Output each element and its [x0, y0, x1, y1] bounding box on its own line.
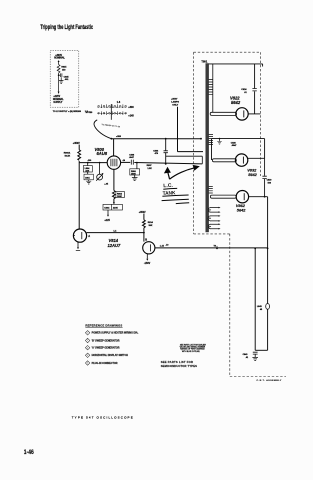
svg-text:500: 500 [268, 183, 272, 185]
svg-text:45: 45 [260, 308, 263, 311]
svg-text:L864: L864 [85, 167, 91, 170]
svg-text:TO LV SUPPLY + (B) WIRING: TO LV SUPPLY + (B) WIRING [53, 111, 82, 113]
svg-text:A: A [88, 234, 90, 238]
svg-text:.001: .001 [64, 79, 69, 81]
svg-text:NOTES: NOTES [86, 112, 93, 114]
svg-text:R845: R845 [61, 66, 67, 69]
svg-text:REFERENCE DRAWINGS: REFERENCE DRAWINGS [85, 324, 122, 328]
svg-text:1-4: 1-4 [113, 229, 117, 232]
svg-text:C806: C806 [153, 151, 159, 153]
svg-text:5: 5 [87, 363, 88, 365]
svg-text:.01: .01 [245, 357, 249, 359]
svg-text:SUPPLY: SUPPLY [53, 102, 62, 104]
svg-text:C830: C830 [267, 180, 273, 182]
svg-text:NOMINAL: NOMINAL [54, 57, 65, 60]
svg-text:C861: C861 [85, 178, 91, 180]
svg-text:-150V: -150V [144, 262, 151, 265]
svg-text:56K: 56K [149, 225, 153, 227]
svg-text:C.R.T. ASSEMBLY: C.R.T. ASSEMBLY [257, 379, 282, 382]
svg-text:R807: R807 [147, 165, 153, 167]
svg-text:6AU8: 6AU8 [97, 151, 108, 156]
svg-text:.0047: .0047 [129, 156, 135, 159]
svg-text:L843: L843 [257, 305, 263, 308]
svg-text:C824: C824 [241, 88, 247, 91]
svg-text:1.5K: 1.5K [147, 168, 152, 170]
svg-text:180K: 180K [131, 173, 136, 175]
svg-text:-14: -14 [122, 159, 126, 162]
svg-text:+225V: +225V [53, 96, 60, 98]
svg-text:PLUG-IN CONNECTOR: PLUG-IN CONNECTOR [92, 362, 118, 365]
svg-text:B: B [145, 237, 147, 241]
svg-text:-100: -100 [87, 160, 91, 162]
svg-text:+300V: +300V [55, 55, 62, 57]
svg-text:HORIZONTAL DISPLAY SWITCH: HORIZONTAL DISPLAY SWITCH [92, 354, 129, 357]
svg-text:TYPE 547 OSCILLOSCOPE: TYPE 547 OSCILLOSCOPE [72, 416, 134, 420]
svg-text:5642: 5642 [231, 100, 241, 105]
svg-text:C843: C843 [243, 353, 249, 356]
svg-text:-10: -10 [166, 245, 170, 247]
svg-text:.0047: .0047 [231, 144, 237, 147]
svg-text:.01: .01 [244, 92, 247, 94]
svg-text:NOMINAL: NOMINAL [53, 98, 64, 101]
svg-text:22K: 22K [85, 170, 89, 172]
svg-text:100K: 100K [117, 196, 122, 198]
svg-text:C804: C804 [104, 207, 110, 210]
svg-text:Tripping the Light Fantastic: Tripping the Light Fantastic [40, 24, 93, 31]
svg-text:12AU7: 12AU7 [108, 243, 121, 248]
svg-text:TO SWEEP CKT 1-30: TO SWEEP CKT 1-30 [101, 124, 120, 128]
svg-text:1: 1 [87, 332, 88, 334]
svg-text:LAMPS: LAMPS [171, 100, 179, 103]
svg-text:WITH BLUE OUTLINE.: WITH BLUE OUTLINE. [182, 351, 201, 353]
svg-text:R860A: R860A [64, 152, 71, 155]
svg-text:+145: +145 [128, 115, 134, 118]
svg-text:1-15: 1-15 [160, 246, 165, 248]
svg-text:2: 2 [87, 340, 88, 342]
svg-text:+350V: +350V [139, 212, 146, 214]
svg-text:+350V: +350V [171, 98, 178, 100]
svg-text:+.05: +.05 [104, 183, 109, 185]
svg-text:3: 3 [87, 347, 88, 349]
svg-text:+350: +350 [116, 136, 122, 138]
svg-text:R814: R814 [148, 221, 154, 224]
svg-text:4: 4 [87, 355, 88, 357]
svg-text:ONLY: ONLY [172, 104, 178, 106]
svg-text:C845: C845 [64, 75, 70, 78]
svg-text:1-46: 1-46 [24, 449, 35, 456]
svg-text:56.5K: 56.5K [65, 156, 71, 158]
svg-text:470: 470 [155, 152, 159, 155]
svg-text:5642: 5642 [237, 207, 246, 212]
svg-text:+350V: +350V [73, 142, 80, 145]
svg-text:5642: 5642 [248, 172, 257, 177]
svg-text:POWER SUPPLY & HEATER WIRING D: POWER SUPPLY & HEATER WIRING DIA. [92, 332, 139, 335]
svg-text:'B' SWEEP GENERATOR: 'B' SWEEP GENERATOR [92, 339, 120, 342]
svg-text:SEE PARTS LIST FOR: SEE PARTS LIST FOR [161, 360, 194, 364]
svg-text:R804: R804 [117, 193, 123, 196]
svg-text:T801: T801 [201, 60, 207, 64]
svg-text:+300: +300 [128, 106, 134, 109]
svg-text:1-8: 1-8 [117, 102, 121, 104]
svg-text:+225: +225 [104, 219, 110, 222]
svg-text:220K: 220K [113, 208, 118, 210]
svg-text:'A' SWEEP GENERATOR: 'A' SWEEP GENERATOR [92, 347, 120, 350]
svg-text:T8: T8 [214, 245, 217, 247]
svg-text:150: 150 [62, 69, 66, 71]
svg-text:SEMICONDUCTOR TYPES: SEMICONDUCTOR TYPES [161, 364, 197, 368]
